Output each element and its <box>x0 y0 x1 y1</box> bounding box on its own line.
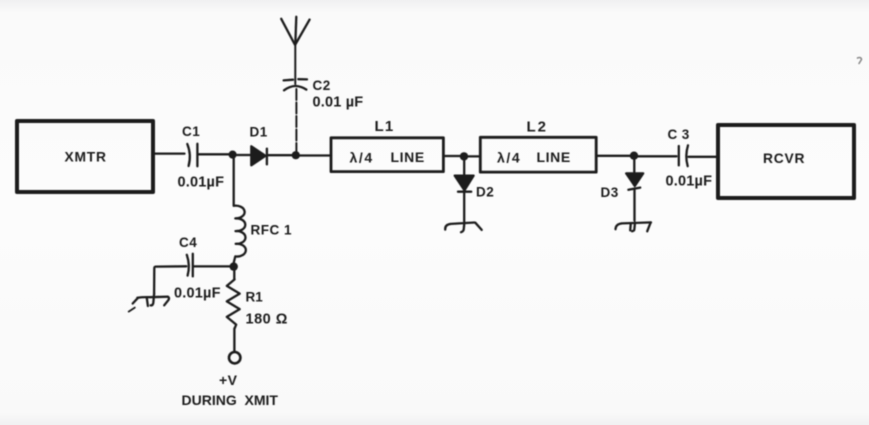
wire C3 to RCVR <box>689 156 718 158</box>
svg-text:RFC 1: RFC 1 <box>251 223 293 238</box>
svg-text:R1: R1 <box>246 290 264 305</box>
wire node D to C3 <box>634 155 677 157</box>
wire C4 to ground corner <box>154 266 186 294</box>
block XMTR <box>17 121 153 192</box>
wire node B to L1 <box>296 154 331 156</box>
diode D1 <box>251 146 267 165</box>
wire C1 to node A <box>198 153 231 155</box>
svg-text:180 Ω: 180 Ω <box>246 312 288 328</box>
ground under D2 <box>445 223 482 233</box>
wire node C to L2 <box>464 155 480 157</box>
svg-text:+V: +V <box>219 372 238 388</box>
diode D2 <box>455 176 474 192</box>
svg-text:D1: D1 <box>250 125 268 140</box>
wire L1 to node C <box>444 155 462 157</box>
scan speck artifact top right <box>858 58 862 64</box>
wire node C to D2 <box>463 156 465 175</box>
capacitor C4 <box>187 254 193 277</box>
svg-text:C1: C1 <box>182 124 200 139</box>
wire R1 to terminal <box>233 328 235 351</box>
svg-text:0.01µF: 0.01µF <box>174 286 221 302</box>
svg-text:LINE: LINE <box>391 149 425 165</box>
svg-text:λ/4: λ/4 <box>497 150 521 166</box>
inductor RFC1 <box>234 206 246 262</box>
svg-text:XMTR: XMTR <box>65 150 107 165</box>
svg-text:L2: L2 <box>527 119 549 136</box>
svg-text:C2: C2 <box>313 78 331 93</box>
svg-text:λ/4: λ/4 <box>350 150 374 166</box>
svg-text:0.01µF: 0.01µF <box>178 175 225 191</box>
wire D2 to ground <box>463 192 465 222</box>
wire D1 to node B <box>267 154 294 156</box>
svg-text:0.01µF: 0.01µF <box>666 174 713 190</box>
wire L2 to node D <box>596 155 632 157</box>
svg-text:DURING XMIT: DURING XMIT <box>182 392 279 408</box>
wire C2 to antenna <box>294 45 296 85</box>
svg-text:C4: C4 <box>179 235 197 250</box>
svg-text:0.01 µF: 0.01 µF <box>313 95 364 111</box>
wire D3 to ground <box>633 189 635 221</box>
svg-text:C3: C3 <box>668 127 694 142</box>
capacitor C2 <box>284 79 307 90</box>
capacitor C3 <box>679 145 688 166</box>
junction node E <box>230 262 238 270</box>
wire XMTR to C1 <box>154 152 185 154</box>
capacitor C1 <box>187 144 197 166</box>
resistor R1 <box>227 279 240 328</box>
junction node D <box>630 152 638 160</box>
svg-text:D2: D2 <box>476 185 494 200</box>
ground under D3 <box>616 222 652 231</box>
wire node B up to C2 <box>295 88 297 155</box>
wire node A to D1 <box>233 154 251 156</box>
quarter-wave line L2 <box>480 137 596 172</box>
junction node C <box>460 152 468 160</box>
quarter-wave line L1 <box>331 138 443 172</box>
wire node E to R1 <box>233 267 235 280</box>
wire node E to C4 <box>194 265 233 267</box>
block RCVR <box>718 125 854 198</box>
ground at C4 <box>129 297 169 312</box>
wire node A down to RFC1 <box>233 155 235 206</box>
wire node D to D3 <box>633 156 635 174</box>
wire stem into ground C4 <box>151 294 155 305</box>
antenna <box>281 17 309 45</box>
junction node A <box>229 151 237 159</box>
diode D3 <box>626 173 643 189</box>
junction node B <box>292 151 300 159</box>
svg-text:L1: L1 <box>375 118 395 135</box>
terminal +V <box>229 352 240 363</box>
svg-text:LINE: LINE <box>537 149 571 165</box>
svg-text:D3: D3 <box>601 185 619 200</box>
svg-text:RCVR: RCVR <box>763 151 805 166</box>
